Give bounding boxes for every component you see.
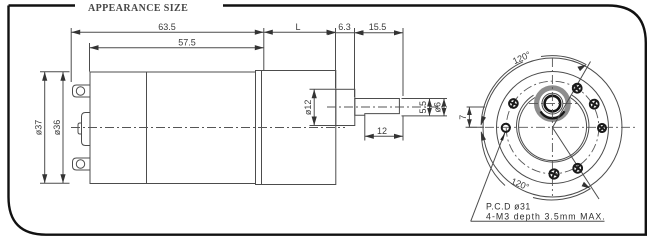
shaft step circle: [542, 93, 563, 114]
svg-text:ø12: ø12: [303, 100, 313, 116]
terminal tab bottom: [73, 158, 91, 170]
dim ø12: [303, 89, 336, 125]
screw hole S: [548, 168, 560, 180]
shaft horizontal center line: [529, 103, 577, 105]
shaft circle bold: [545, 96, 561, 112]
P.C.D circle: [506, 81, 599, 174]
dim 15.5: [355, 22, 404, 96]
dim 6.3: [328, 22, 363, 97]
gear crescent arc: [541, 111, 565, 118]
svg-text:5.5: 5.5: [418, 101, 428, 114]
dim 57.5: [90, 38, 264, 72]
screw hole NNE: [571, 82, 584, 95]
case step circle: [497, 72, 609, 184]
radial line SE: [553, 128, 600, 200]
svg-text:7: 7: [458, 115, 468, 120]
motor end bell divider: [146, 72, 148, 184]
svg-text:63.5: 63.5: [158, 22, 176, 32]
svg-text:120°: 120°: [511, 49, 532, 66]
svg-text:4-M3 depth 3.5mm MAX.: 4-M3 depth 3.5mm MAX.: [486, 211, 606, 221]
gearbox cover plate line: [261, 71, 263, 185]
gearbox outer circle: [483, 58, 622, 197]
front view horizontal center line: [468, 126, 636, 128]
svg-text:ø37: ø37: [34, 120, 44, 136]
rear bearing bump: [82, 113, 91, 146]
dim ø36: [52, 72, 66, 184]
dim ø37: [34, 72, 70, 184]
note text: [486, 202, 606, 222]
svg-text:ø36: ø36: [52, 120, 62, 136]
screw hole SE: [571, 162, 584, 175]
motor can body: [90, 72, 256, 184]
gear bore circles: [519, 97, 587, 160]
note underline: [471, 220, 605, 222]
svg-text:15.5: 15.5: [369, 22, 387, 32]
dim ø6: [433, 99, 447, 117]
svg-text:6.3: 6.3: [338, 22, 351, 32]
svg-text:L: L: [295, 22, 300, 32]
dim 63.5: [71, 22, 264, 82]
svg-text:120°: 120°: [510, 176, 531, 192]
svg-text:P.C.D ø31: P.C.D ø31: [486, 202, 531, 212]
radial line NNE: [553, 62, 591, 128]
svg-text:APPEARANCE SIZE: APPEARANCE SIZE: [88, 3, 188, 14]
screw hole ENE: [588, 98, 600, 110]
output shaft with D-flat: [355, 99, 400, 116]
note leader: [471, 133, 505, 222]
shaft boss gray ring: [537, 88, 569, 120]
leader arrowhead: [500, 132, 505, 141]
rear small tab: [78, 123, 82, 134]
motor center line: [71, 127, 345, 129]
output boss (ø12): [336, 89, 355, 125]
svg-text:12: 12: [377, 126, 387, 136]
mounting hole W: [502, 124, 510, 132]
dim L: [264, 22, 336, 70]
svg-text:ø6: ø6: [433, 102, 443, 113]
dim 12: [365, 116, 403, 141]
dim 5.5: [402, 99, 448, 117]
screw hole NW: [507, 98, 519, 110]
gearbox body: [256, 71, 336, 185]
terminal hole bottom: [76, 160, 84, 168]
terminal tab top: [73, 85, 91, 97]
front view vertical center line: [551, 58, 553, 196]
120 deg arc top: [481, 49, 586, 125]
terminal hole top: [76, 87, 84, 95]
120 deg arc bottom: [481, 132, 590, 200]
svg-text:57.5: 57.5: [178, 38, 196, 48]
shaft center line: [327, 106, 447, 108]
screw hole E: [596, 122, 609, 135]
dim 7 offset: [458, 107, 485, 127]
